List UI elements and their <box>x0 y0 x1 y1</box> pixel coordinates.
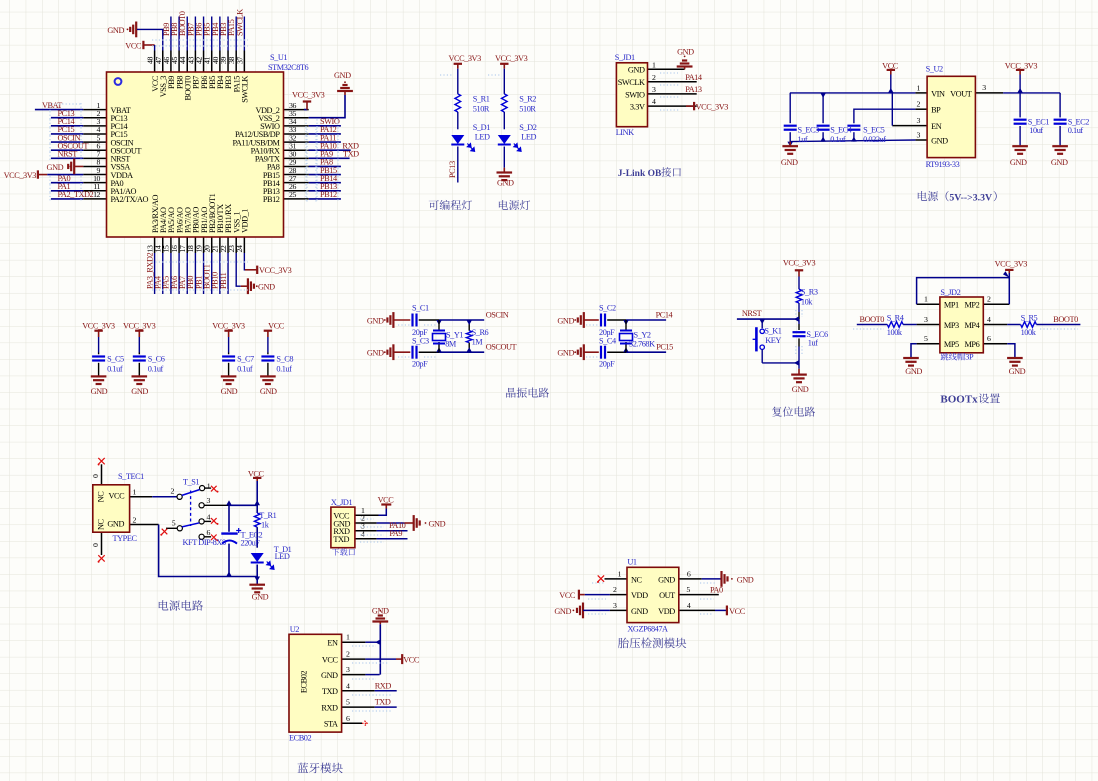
svg-text:10k: 10k <box>801 297 813 306</box>
svg-text:4: 4 <box>987 315 991 324</box>
svg-text:OSCOUT: OSCOUT <box>486 343 517 352</box>
svg-text:OUT: OUT <box>659 591 675 600</box>
svg-text:S_U1: S_U1 <box>270 53 287 62</box>
svg-text:8M: 8M <box>445 340 457 349</box>
svg-text:PC14: PC14 <box>656 310 674 319</box>
svg-text:1uf: 1uf <box>808 338 818 347</box>
svg-text:OSCIN: OSCIN <box>486 310 509 319</box>
svg-text:SWCLK: SWCLK <box>235 9 244 36</box>
svg-text:VCC: VCC <box>729 607 746 616</box>
svg-text:GND: GND <box>677 48 694 57</box>
svg-text:NC: NC <box>631 575 643 584</box>
svg-text:1M: 1M <box>472 338 484 347</box>
svg-text:100k: 100k <box>887 328 903 337</box>
svg-text:VCC: VCC <box>109 492 126 501</box>
svg-text:STM32C8T6: STM32C8T6 <box>268 63 309 72</box>
svg-text:VCC: VCC <box>268 322 285 331</box>
svg-text:6: 6 <box>346 714 350 723</box>
svg-text:VCC_3V3: VCC_3V3 <box>4 171 37 180</box>
svg-text:LED: LED <box>275 552 290 561</box>
svg-text:S_R1: S_R1 <box>473 95 490 104</box>
svg-text:0.1uf: 0.1uf <box>830 135 846 144</box>
svg-text:TXD: TXD <box>322 687 338 696</box>
svg-text:NC: NC <box>97 518 106 530</box>
svg-text:VCC: VCC <box>378 496 395 505</box>
svg-text:1: 1 <box>618 569 622 578</box>
svg-text:MP5: MP5 <box>944 340 959 349</box>
svg-text:1uf: 1uf <box>798 135 808 144</box>
svg-text:EN: EN <box>327 639 338 648</box>
svg-text:SWCLK: SWCLK <box>618 78 645 87</box>
svg-text:20pF: 20pF <box>599 360 615 369</box>
svg-text:S_D1: S_D1 <box>473 123 490 132</box>
svg-text:S_C7: S_C7 <box>237 355 254 364</box>
svg-text:GND: GND <box>905 367 922 376</box>
svg-text:S_EC3: S_EC3 <box>798 125 820 134</box>
svg-text:GND: GND <box>321 671 338 680</box>
svg-text:S_D2: S_D2 <box>519 123 536 132</box>
svg-text:12: 12 <box>93 190 100 199</box>
svg-text:20pF: 20pF <box>412 360 428 369</box>
svg-text:S_EC4: S_EC4 <box>830 125 853 134</box>
svg-text:RXD: RXD <box>321 704 338 713</box>
svg-text:GND: GND <box>658 575 675 584</box>
svg-text:3P: 3P <box>965 353 974 362</box>
svg-text:1: 1 <box>924 295 928 304</box>
svg-text:GND: GND <box>737 575 754 584</box>
svg-text:VIN: VIN <box>931 89 945 98</box>
svg-text:6: 6 <box>207 528 211 537</box>
svg-text:3: 3 <box>613 601 617 610</box>
svg-text:GND: GND <box>334 71 351 80</box>
svg-text:3.3V: 3.3V <box>630 103 645 112</box>
svg-text:0.1uf: 0.1uf <box>1068 126 1084 135</box>
svg-text:S_EC5: S_EC5 <box>863 125 885 134</box>
svg-text:TXD: TXD <box>375 698 391 707</box>
svg-text:PA2/TX/AO: PA2/TX/AO <box>111 195 149 204</box>
svg-text:0: 0 <box>91 474 100 478</box>
svg-text:S_EC2: S_EC2 <box>1068 118 1090 127</box>
svg-text:3: 3 <box>917 116 921 125</box>
svg-text:PA14: PA14 <box>685 73 703 82</box>
svg-text:VCC_3V3: VCC_3V3 <box>783 259 816 268</box>
svg-text:SWCLK: SWCLK <box>241 76 250 103</box>
svg-text:220uF: 220uF <box>241 538 261 547</box>
svg-text:GND: GND <box>792 385 809 394</box>
svg-text:5: 5 <box>346 698 350 707</box>
svg-text:MP4: MP4 <box>965 321 981 330</box>
svg-text:24: 24 <box>235 245 244 252</box>
svg-text:1k: 1k <box>261 521 270 530</box>
svg-text:0: 0 <box>91 543 100 547</box>
svg-text:510R: 510R <box>519 105 536 114</box>
svg-text:RXD: RXD <box>375 681 392 690</box>
svg-text:3: 3 <box>982 83 986 92</box>
svg-text:25: 25 <box>289 190 296 199</box>
svg-text:3: 3 <box>346 665 350 674</box>
svg-text:GND: GND <box>557 316 574 325</box>
svg-text:S_JD2: S_JD2 <box>940 288 960 297</box>
svg-text:5: 5 <box>924 334 928 343</box>
svg-text:37: 37 <box>235 57 244 64</box>
svg-text:U1: U1 <box>627 558 637 567</box>
svg-text:0.1uf: 0.1uf <box>148 364 164 373</box>
svg-text:1: 1 <box>133 488 137 497</box>
svg-text:BOOT0: BOOT0 <box>860 315 885 324</box>
svg-text:BOOTx: BOOTx <box>940 394 978 406</box>
svg-text:LED: LED <box>475 133 490 142</box>
svg-text:S_Y2: S_Y2 <box>634 331 651 340</box>
svg-text:GND: GND <box>221 387 238 396</box>
svg-text:GND: GND <box>781 158 798 167</box>
svg-text:6: 6 <box>687 569 691 578</box>
svg-text:VCC_3V3: VCC_3V3 <box>495 54 528 63</box>
svg-text:S_C4: S_C4 <box>599 337 617 346</box>
svg-text:1: 1 <box>346 633 350 642</box>
svg-text:ECB02: ECB02 <box>289 734 311 743</box>
svg-text:LINK: LINK <box>616 128 634 137</box>
svg-text:4: 4 <box>687 601 691 610</box>
svg-text:GND: GND <box>628 66 645 75</box>
svg-text:PC15: PC15 <box>656 343 673 352</box>
svg-text:2: 2 <box>171 486 175 495</box>
svg-text:0.022uf: 0.022uf <box>863 135 886 144</box>
svg-text:NC: NC <box>97 491 106 503</box>
svg-text:TYPEC: TYPEC <box>113 534 138 543</box>
svg-text:GND: GND <box>252 593 269 602</box>
svg-text:GND: GND <box>131 387 148 396</box>
svg-text:VCC: VCC <box>403 656 420 665</box>
svg-text:MP3: MP3 <box>944 321 959 330</box>
svg-text:S_C5: S_C5 <box>107 355 124 364</box>
svg-text:5: 5 <box>686 585 690 594</box>
svg-text:GND: GND <box>429 519 446 528</box>
svg-text:6: 6 <box>987 334 991 343</box>
svg-text:GND: GND <box>367 316 384 325</box>
svg-text:5: 5 <box>172 519 176 528</box>
svg-text:GND: GND <box>1009 367 1026 376</box>
svg-text:J-Link OB: J-Link OB <box>618 169 662 179</box>
svg-text:S_C1: S_C1 <box>412 303 429 312</box>
svg-text:PB11: PB11 <box>219 272 228 289</box>
svg-text:5V-->3.3V: 5V-->3.3V <box>949 192 992 203</box>
svg-text:BOOT0: BOOT0 <box>1053 315 1078 324</box>
svg-text:GND: GND <box>107 519 124 528</box>
svg-text:PB12: PB12 <box>320 190 337 199</box>
svg-text:32.768K: 32.768K <box>629 340 655 349</box>
svg-text:VCC: VCC <box>559 591 576 600</box>
svg-text:VCC_3V3: VCC_3V3 <box>696 103 729 112</box>
svg-text:VCC_3V3: VCC_3V3 <box>123 322 156 331</box>
svg-text:S_Y1: S_Y1 <box>446 331 463 340</box>
svg-text:EN: EN <box>931 122 942 131</box>
svg-text:100k: 100k <box>1021 328 1037 337</box>
svg-text:2: 2 <box>917 100 921 109</box>
svg-text:MP1: MP1 <box>944 301 959 310</box>
svg-text:S_R6: S_R6 <box>472 328 489 337</box>
svg-text:0.1uf: 0.1uf <box>237 364 253 373</box>
svg-text:VCC_3V3: VCC_3V3 <box>292 91 325 100</box>
svg-text:0.1uf: 0.1uf <box>276 364 292 373</box>
svg-text:TXD: TXD <box>333 535 349 544</box>
svg-text:GND: GND <box>47 163 64 172</box>
svg-text:2: 2 <box>613 585 617 594</box>
svg-text:GND: GND <box>557 349 574 358</box>
svg-text:SWIO: SWIO <box>625 90 645 99</box>
svg-text:3: 3 <box>652 85 656 94</box>
svg-text:4: 4 <box>652 97 656 106</box>
svg-text:S_K1: S_K1 <box>764 326 781 335</box>
svg-text:KFT DIP-8X8: KFT DIP-8X8 <box>183 538 226 547</box>
svg-text:S_C6: S_C6 <box>148 355 165 364</box>
svg-text:S_C8: S_C8 <box>276 355 293 364</box>
svg-text:0.1uf: 0.1uf <box>107 364 123 373</box>
svg-text:S_R2: S_R2 <box>519 95 536 104</box>
svg-text:T_R1: T_R1 <box>259 511 276 520</box>
svg-text:VCC_3V3: VCC_3V3 <box>212 322 245 331</box>
svg-text:PA9: PA9 <box>389 529 402 538</box>
svg-text:2: 2 <box>652 73 656 82</box>
svg-text:S_C3: S_C3 <box>412 337 429 346</box>
svg-text:MP2: MP2 <box>965 301 980 310</box>
svg-text:VDD: VDD <box>658 607 675 616</box>
svg-text:VDD_1: VDD_1 <box>241 209 250 233</box>
svg-text:S_R5: S_R5 <box>1021 313 1038 322</box>
svg-text:T_S1: T_S1 <box>183 478 199 487</box>
svg-text:S_R4: S_R4 <box>887 313 905 322</box>
svg-text:U2: U2 <box>290 625 300 634</box>
svg-text:GND: GND <box>1010 158 1027 167</box>
svg-text:PC13: PC13 <box>448 161 457 178</box>
svg-text:3: 3 <box>924 315 928 324</box>
svg-text:VCC_3V3: VCC_3V3 <box>448 54 481 63</box>
svg-text:PA2_TXD2: PA2_TXD2 <box>58 190 94 199</box>
svg-text:GND: GND <box>367 349 384 358</box>
svg-text:GND: GND <box>91 387 108 396</box>
svg-text:TXD: TXD <box>343 150 359 159</box>
svg-text:GND: GND <box>497 179 514 188</box>
svg-text:4: 4 <box>361 529 365 538</box>
svg-text:2: 2 <box>346 650 350 659</box>
svg-text:GND: GND <box>258 283 275 292</box>
svg-text:RT9193-33: RT9193-33 <box>926 160 960 169</box>
svg-text:S_R3: S_R3 <box>801 288 818 297</box>
svg-text:LED: LED <box>521 133 536 142</box>
svg-text:S_TEC1: S_TEC1 <box>118 472 144 481</box>
svg-text:GND: GND <box>631 607 648 616</box>
svg-text:1: 1 <box>652 60 656 69</box>
svg-text:VDD: VDD <box>631 591 648 600</box>
svg-text:3: 3 <box>917 131 921 140</box>
svg-text:GND: GND <box>107 26 124 35</box>
svg-text:S_U2: S_U2 <box>926 65 943 74</box>
svg-text:1: 1 <box>207 482 211 491</box>
svg-text:STA: STA <box>324 720 338 729</box>
svg-text:X_JD1: X_JD1 <box>331 498 353 507</box>
svg-text:PA13: PA13 <box>685 85 702 94</box>
svg-text:4: 4 <box>346 681 350 690</box>
svg-text:MP6: MP6 <box>965 340 980 349</box>
svg-text:XGZP6847A: XGZP6847A <box>627 625 668 634</box>
svg-text:GND: GND <box>554 607 571 616</box>
svg-text:GND: GND <box>931 136 948 145</box>
svg-text:VCC_3V3: VCC_3V3 <box>259 266 292 275</box>
svg-text:S_EC1: S_EC1 <box>1028 118 1050 127</box>
svg-text:S_C2: S_C2 <box>599 303 616 312</box>
svg-text:10uf: 10uf <box>1029 126 1043 135</box>
svg-text:ECB02: ECB02 <box>300 671 309 693</box>
svg-text:KEY: KEY <box>765 336 781 345</box>
svg-text:PA0: PA0 <box>710 585 723 594</box>
svg-text:GND: GND <box>1051 158 1068 167</box>
svg-text:NRST: NRST <box>58 150 78 159</box>
svg-text:S_JD1: S_JD1 <box>615 53 635 62</box>
svg-text:VCC_3V3: VCC_3V3 <box>995 260 1028 269</box>
svg-text:PB12: PB12 <box>263 195 280 204</box>
svg-text:1: 1 <box>917 83 921 92</box>
svg-text:510R: 510R <box>473 105 490 114</box>
svg-text:GND: GND <box>260 387 277 396</box>
svg-text:VOUT: VOUT <box>950 89 972 98</box>
svg-text:VCC_3V3: VCC_3V3 <box>82 322 115 331</box>
svg-text:VCC: VCC <box>125 42 142 51</box>
svg-text:VCC: VCC <box>322 656 339 665</box>
svg-text:2: 2 <box>133 516 137 525</box>
svg-text:BP: BP <box>931 106 941 115</box>
svg-text:3: 3 <box>207 496 211 505</box>
svg-text:4: 4 <box>207 512 211 521</box>
svg-text:NRST: NRST <box>742 309 762 318</box>
svg-text:2: 2 <box>987 295 991 304</box>
